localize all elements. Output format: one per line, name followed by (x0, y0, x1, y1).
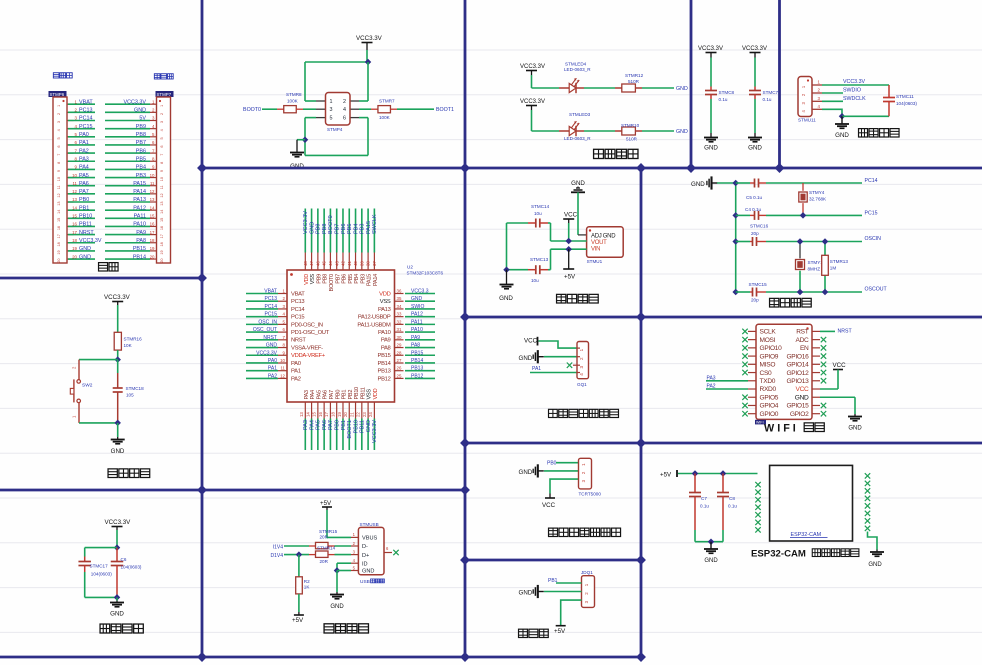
svg-text:2: 2 (343, 99, 346, 105)
svg-text:JDQ1: JDQ1 (581, 570, 593, 575)
svg-text:PB0: PB0 (335, 390, 341, 400)
svg-text:EN: EN (800, 345, 809, 352)
svg-text:VCC: VCC (542, 502, 556, 509)
svg-text:PA15: PA15 (133, 181, 146, 187)
svg-text:GND: GND (411, 296, 423, 302)
svg-text:PB5: PB5 (136, 156, 146, 162)
svg-text:PA13: PA13 (378, 307, 391, 313)
svg-text:20: 20 (57, 259, 61, 263)
svg-text:SW2: SW2 (82, 383, 93, 389)
svg-text:PB10: PB10 (353, 420, 359, 433)
svg-text:PC15: PC15 (79, 124, 93, 130)
svg-text:PB5: PB5 (348, 274, 354, 284)
svg-text:GPIO0: GPIO0 (760, 411, 779, 418)
svg-text:PA3: PA3 (304, 390, 310, 399)
svg-text:C6: C6 (121, 557, 127, 562)
svg-text:15: 15 (312, 412, 317, 417)
svg-text:19: 19 (160, 250, 164, 254)
svg-text:+5V: +5V (292, 617, 304, 624)
svg-text:GND: GND (309, 222, 315, 234)
svg-text:D+: D+ (362, 553, 369, 559)
svg-text:PA1: PA1 (532, 366, 541, 372)
svg-text:GND: GND (676, 86, 688, 92)
svg-text:PA2: PA2 (79, 148, 89, 154)
svg-text:PA0: PA0 (79, 132, 89, 138)
svg-text:4: 4 (343, 107, 346, 113)
svg-text:20: 20 (150, 254, 155, 259)
svg-text:GPIO16: GPIO16 (786, 353, 809, 360)
svg-text:20: 20 (343, 412, 348, 417)
svg-text:17: 17 (57, 234, 61, 238)
svg-text:2: 2 (579, 357, 584, 360)
svg-text:PB2: PB2 (348, 390, 354, 400)
svg-text:36: 36 (397, 289, 402, 294)
svg-text:16: 16 (57, 226, 61, 230)
svg-text:18: 18 (331, 412, 336, 417)
svg-text:RXD0: RXD0 (760, 386, 777, 393)
svg-text:GND: GND (704, 145, 718, 152)
svg-text:PA10: PA10 (378, 330, 391, 336)
svg-text:GND: GND (499, 295, 513, 302)
svg-text:GND: GND (362, 569, 374, 575)
svg-text:PA1: PA1 (79, 140, 89, 146)
svg-text:BOOT0: BOOT0 (243, 107, 261, 113)
svg-text:STMR10: STMR10 (621, 123, 640, 128)
svg-text:PA4: PA4 (310, 390, 316, 399)
svg-text:20p: 20p (751, 298, 759, 303)
svg-text:GQ1: GQ1 (577, 382, 587, 387)
svg-text:510R: 510R (626, 137, 638, 142)
svg-text:PB13: PB13 (411, 366, 423, 372)
svg-text:1: 1 (57, 105, 61, 107)
svg-text:1: 1 (579, 348, 584, 351)
svg-text:OSC_OUT: OSC_OUT (253, 327, 277, 333)
svg-text:18: 18 (57, 242, 61, 246)
svg-text:GPIO14: GPIO14 (786, 362, 809, 369)
svg-text:16: 16 (318, 412, 323, 417)
svg-text:STMU1: STMU1 (587, 259, 603, 264)
svg-text:GPIO15: GPIO15 (786, 403, 809, 410)
svg-text:43: 43 (334, 261, 339, 266)
svg-text:PB12: PB12 (411, 373, 423, 379)
svg-text:4: 4 (579, 373, 584, 376)
svg-text:PA1: PA1 (268, 366, 277, 372)
svg-text:14: 14 (160, 210, 164, 214)
svg-text:NRST: NRST (838, 328, 853, 334)
svg-text:PB9: PB9 (316, 274, 322, 284)
svg-text:2: 2 (57, 113, 61, 115)
svg-text:10: 10 (160, 177, 164, 181)
svg-text:12: 12 (57, 193, 61, 197)
svg-text:16: 16 (150, 222, 155, 227)
svg-text:1: 1 (160, 105, 164, 107)
svg-text:15: 15 (72, 214, 77, 219)
svg-text:D-: D- (362, 544, 368, 550)
svg-text:VCC: VCC (564, 212, 578, 219)
svg-text:42: 42 (341, 261, 346, 266)
svg-text:PC15: PC15 (865, 210, 878, 216)
svg-text:17: 17 (72, 230, 77, 235)
svg-text:STMC14: STMC14 (531, 204, 550, 209)
svg-text:PB0: PB0 (335, 420, 341, 430)
svg-text:13: 13 (299, 412, 304, 417)
svg-text:PD1-OSC_OUT: PD1-OSC_OUT (291, 330, 330, 336)
svg-text:TCRT5000: TCRT5000 (579, 492, 602, 497)
svg-text:PB1: PB1 (341, 420, 347, 430)
svg-text:1: 1 (330, 99, 333, 105)
svg-text:20R: 20R (320, 559, 329, 564)
svg-text:BOOT0: BOOT0 (329, 274, 335, 292)
svg-text:9: 9 (160, 170, 164, 172)
svg-text:BOOT0: BOOT0 (328, 215, 334, 234)
svg-text:PA9: PA9 (381, 338, 391, 344)
svg-text:STM32F103C8T6: STM32F103C8T6 (407, 271, 444, 276)
svg-text:5: 5 (57, 137, 61, 139)
svg-text:PA14: PA14 (133, 189, 146, 195)
svg-text:STMR12: STMR12 (625, 73, 644, 78)
svg-text:3: 3 (330, 107, 333, 113)
svg-text:GND: GND (330, 604, 344, 610)
svg-text:25: 25 (397, 373, 402, 378)
svg-text:45: 45 (322, 261, 327, 266)
svg-text:PB11: PB11 (360, 420, 366, 433)
svg-text:VCC: VCC (833, 362, 847, 369)
svg-text:U2: U2 (407, 265, 413, 270)
svg-text:PA9: PA9 (136, 230, 146, 236)
svg-text:PA2: PA2 (707, 384, 716, 390)
svg-text:C5 0.1u: C5 0.1u (746, 195, 763, 200)
svg-text:STMC7: STMC7 (763, 90, 779, 95)
svg-text:8: 8 (57, 162, 61, 164)
svg-text:19: 19 (150, 246, 155, 251)
svg-text:GPIO4: GPIO4 (760, 403, 779, 410)
svg-text:TXD0: TXD0 (760, 378, 776, 385)
svg-text:PA15: PA15 (366, 221, 372, 234)
svg-text:STMY4: STMY4 (809, 190, 825, 195)
svg-text:32: 32 (397, 319, 402, 324)
svg-text:PB4: PB4 (353, 224, 359, 234)
svg-text:STMY1: STMY1 (808, 260, 824, 265)
svg-text:PA8: PA8 (381, 345, 391, 351)
svg-text:STMC15: STMC15 (749, 282, 768, 287)
svg-text:PA7: PA7 (329, 390, 335, 399)
svg-text:VCC3.3: VCC3.3 (411, 289, 429, 295)
svg-text:18: 18 (72, 238, 77, 243)
svg-text:NRST: NRST (291, 338, 306, 344)
svg-text:VCC3.3V: VCC3.3V (79, 238, 102, 244)
svg-text:SWIO: SWIO (411, 304, 424, 310)
svg-text:PB10: PB10 (79, 214, 92, 220)
svg-text:12: 12 (280, 373, 285, 378)
svg-text:PB13: PB13 (378, 369, 391, 375)
svg-text:14: 14 (57, 210, 61, 214)
svg-text:11: 11 (280, 366, 285, 371)
svg-text:10u: 10u (534, 211, 542, 216)
svg-text:GND: GND (519, 590, 533, 597)
svg-text:VBAT: VBAT (264, 289, 277, 295)
svg-text:+5V: +5V (660, 472, 672, 479)
svg-text:PB1: PB1 (342, 390, 348, 400)
svg-text:PA7: PA7 (328, 420, 334, 430)
svg-text:12: 12 (150, 189, 155, 194)
svg-text:C4 0.1u: C4 0.1u (745, 207, 762, 212)
svg-text:VDD: VDD (379, 291, 390, 297)
svg-text:8MHZ: 8MHZ (808, 267, 821, 272)
svg-text:VSS: VSS (380, 299, 391, 305)
svg-text:4: 4 (160, 129, 164, 131)
svg-text:3: 3 (57, 121, 61, 123)
svg-text:PA11: PA11 (411, 319, 423, 325)
svg-text:GND: GND (835, 132, 849, 139)
svg-text:10: 10 (72, 173, 77, 178)
svg-text:PC13: PC13 (264, 296, 277, 302)
svg-text:100K: 100K (379, 115, 391, 120)
svg-text:13: 13 (72, 197, 77, 202)
svg-text:32.768K: 32.768K (809, 197, 827, 202)
svg-text:PA2: PA2 (291, 376, 301, 382)
svg-text:GND: GND (691, 181, 705, 188)
svg-text:PD0-OSC_IN: PD0-OSC_IN (291, 322, 323, 328)
svg-text:VBAT: VBAT (291, 291, 305, 297)
svg-text:VOUT: VOUT (591, 240, 607, 246)
svg-text:W I F I: W I F I (764, 423, 796, 435)
svg-text:GND: GND (110, 611, 124, 618)
svg-text:D1V4: D1V4 (270, 553, 283, 559)
svg-text:ID: ID (362, 561, 368, 567)
svg-text:21: 21 (349, 412, 354, 417)
svg-text:GND: GND (79, 254, 91, 260)
svg-text:48: 48 (303, 261, 308, 266)
svg-text:ESP32-CAM: ESP32-CAM (751, 549, 806, 560)
svg-text:40: 40 (353, 261, 358, 266)
svg-text:PA0: PA0 (291, 361, 301, 367)
svg-text:10: 10 (150, 173, 155, 178)
svg-text:1M: 1M (830, 266, 837, 271)
svg-text:PA6: PA6 (322, 420, 328, 430)
svg-text:47: 47 (309, 261, 314, 266)
svg-text:GPIO9: GPIO9 (760, 353, 779, 360)
svg-text:10u: 10u (531, 278, 539, 283)
svg-text:38: 38 (366, 261, 371, 266)
svg-text:PC14: PC14 (264, 304, 277, 310)
svg-text:GND: GND (676, 129, 688, 135)
svg-text:1K: 1K (304, 585, 311, 590)
svg-text:22: 22 (356, 412, 361, 417)
svg-text:3: 3 (579, 365, 584, 368)
svg-text:6: 6 (57, 145, 61, 147)
svg-text:RST: RST (796, 329, 809, 336)
svg-text:PA12-USBDP: PA12-USBDP (358, 315, 391, 321)
svg-text:VDD: VDD (304, 274, 310, 285)
svg-text:STMU11: STMU11 (798, 118, 816, 123)
svg-text:VCC3.3V: VCC3.3V (372, 420, 378, 443)
svg-text:104(0603): 104(0603) (91, 572, 112, 577)
svg-text:GND: GND (748, 145, 762, 152)
svg-text:PA14: PA14 (373, 274, 379, 286)
svg-text:I1V4: I1V4 (273, 544, 284, 550)
svg-text:VCC3.3V: VCC3.3V (105, 519, 132, 526)
svg-text:PB10: PB10 (354, 387, 360, 400)
svg-text:STMR16: STMR16 (124, 337, 143, 342)
svg-text:5V: 5V (139, 116, 146, 122)
svg-text:15: 15 (57, 218, 61, 222)
svg-text:PA12: PA12 (133, 205, 146, 211)
svg-text:13: 13 (150, 197, 155, 202)
svg-text:CS0: CS0 (760, 370, 773, 377)
svg-text:PB8: PB8 (136, 132, 146, 138)
svg-text:0.1u: 0.1u (728, 504, 737, 509)
svg-text:12: 12 (72, 189, 77, 194)
svg-text:VCC3.3V: VCC3.3V (520, 64, 545, 70)
svg-text:PA15: PA15 (367, 274, 373, 286)
svg-text:ADC: ADC (795, 337, 809, 344)
svg-text:SWDIO: SWDIO (843, 88, 861, 94)
svg-text:PA3: PA3 (79, 156, 89, 162)
svg-text:17: 17 (324, 412, 329, 417)
svg-text:MISO: MISO (760, 362, 776, 369)
svg-text:PB6: PB6 (342, 274, 348, 284)
svg-text:GND: GND (134, 108, 146, 114)
svg-text:PA9: PA9 (411, 335, 420, 341)
svg-text:PB5: PB5 (347, 224, 353, 234)
svg-text:PA13: PA13 (133, 197, 146, 203)
svg-text:PB15: PB15 (133, 246, 146, 252)
svg-text:PB8: PB8 (322, 224, 328, 234)
svg-text:PA11: PA11 (134, 214, 146, 220)
svg-text:11: 11 (150, 181, 155, 186)
svg-text:STMR13: STMR13 (830, 259, 849, 264)
svg-text:5: 5 (160, 137, 164, 139)
svg-text:19: 19 (57, 250, 61, 254)
svg-text:GND: GND (704, 558, 718, 564)
svg-text:NRST: NRST (79, 230, 94, 236)
svg-text:STMUSB: STMUSB (360, 522, 379, 527)
svg-text:STMC11: STMC11 (896, 94, 914, 99)
svg-text:WIFI: WIFI (756, 421, 764, 425)
svg-text:GND: GND (111, 448, 125, 455)
svg-text:PB11: PB11 (360, 387, 366, 399)
svg-text:STMC8: STMC8 (719, 90, 735, 95)
svg-text:PB3: PB3 (136, 173, 146, 179)
svg-text:20R: 20R (320, 535, 329, 540)
svg-text:11: 11 (160, 185, 164, 189)
svg-text:13: 13 (160, 201, 164, 205)
svg-text:PA1: PA1 (291, 369, 301, 375)
svg-text:STMP6: STMP6 (50, 92, 65, 97)
svg-text:PA3: PA3 (707, 375, 716, 381)
svg-text:STMR15: STMR15 (319, 529, 338, 534)
svg-text:4: 4 (57, 129, 61, 131)
svg-text:+5V: +5V (554, 628, 566, 635)
svg-text:14: 14 (305, 412, 310, 417)
svg-text:VSSA-VREF-: VSSA-VREF- (291, 345, 323, 351)
svg-text:GND: GND (266, 343, 278, 349)
svg-text:0.1u: 0.1u (700, 504, 709, 509)
svg-text:2: 2 (160, 113, 164, 115)
svg-text:23: 23 (362, 412, 367, 417)
svg-text:PB11: PB11 (79, 222, 92, 228)
svg-text:STMP7: STMP7 (157, 92, 172, 97)
svg-text:PB0: PB0 (547, 460, 557, 466)
svg-text:OSCIN: OSCIN (865, 236, 882, 242)
svg-text:PC14: PC14 (79, 116, 93, 122)
svg-text:+5V: +5V (320, 500, 332, 507)
svg-text:PB3: PB3 (360, 274, 366, 284)
svg-text:16: 16 (72, 222, 77, 227)
svg-text:PB15: PB15 (378, 353, 391, 359)
svg-text:PB8: PB8 (323, 274, 329, 284)
svg-text:VSS: VSS (367, 389, 373, 400)
svg-text:VBUS: VBUS (362, 536, 378, 542)
svg-text:GND: GND (868, 562, 882, 568)
svg-text:PC15: PC15 (291, 315, 304, 321)
svg-text:VIN: VIN (591, 246, 600, 252)
svg-text:27: 27 (397, 358, 402, 363)
svg-text:PB9: PB9 (136, 124, 146, 130)
svg-text:3: 3 (160, 121, 164, 123)
svg-text:+5V: +5V (564, 274, 576, 281)
svg-text:PC13: PC13 (79, 108, 93, 114)
svg-text:16: 16 (160, 226, 164, 230)
svg-text:11: 11 (57, 185, 61, 189)
svg-text:VBAT: VBAT (79, 99, 93, 105)
svg-text:105: 105 (126, 392, 134, 397)
svg-text:34: 34 (397, 304, 402, 309)
svg-text:VCC3.3V: VCC3.3V (742, 46, 767, 52)
svg-text:33: 33 (397, 312, 402, 317)
svg-text:19: 19 (72, 246, 77, 251)
svg-text:13: 13 (57, 201, 61, 205)
svg-text:24: 24 (368, 412, 373, 417)
svg-text:18: 18 (160, 242, 164, 246)
svg-text:PA6: PA6 (79, 181, 89, 187)
svg-text:6: 6 (160, 145, 164, 147)
svg-text:PA8: PA8 (136, 238, 146, 244)
svg-text:STMC16: STMC16 (750, 224, 769, 229)
svg-text:VCC3.3V: VCC3.3V (124, 99, 147, 105)
svg-text:9: 9 (57, 170, 61, 172)
svg-text:STMLED3: STMLED3 (569, 112, 591, 117)
svg-text:VCC3.3V: VCC3.3V (303, 211, 309, 234)
svg-text:15: 15 (150, 214, 155, 219)
svg-text:STMC18: STMC18 (126, 386, 145, 391)
svg-text:PB4: PB4 (354, 274, 360, 284)
svg-text:VCC3.3V: VCC3.3V (356, 35, 383, 42)
svg-text:PA10: PA10 (133, 222, 146, 228)
svg-text:15: 15 (160, 218, 164, 222)
svg-text:STMC17: STMC17 (90, 564, 109, 569)
svg-text:PA0: PA0 (268, 358, 277, 364)
svg-text:PA12: PA12 (411, 312, 423, 318)
svg-text:NRST: NRST (263, 335, 277, 341)
svg-text:PB6: PB6 (136, 148, 146, 154)
svg-text:31: 31 (397, 327, 402, 332)
svg-text:20: 20 (72, 254, 77, 259)
svg-text:PB3: PB3 (360, 224, 366, 234)
svg-text:PB7: PB7 (136, 140, 146, 146)
svg-text:0.1u: 0.1u (719, 97, 728, 102)
svg-text:GND: GND (366, 420, 372, 432)
svg-text:PC14: PC14 (291, 307, 305, 313)
svg-text:VCC: VCC (524, 338, 538, 345)
svg-text:SWCLK: SWCLK (372, 214, 378, 234)
svg-text:VSS: VSS (310, 273, 316, 284)
svg-text:PB14: PB14 (133, 254, 146, 260)
svg-text:PA5: PA5 (79, 173, 89, 179)
svg-text:39: 39 (359, 261, 364, 266)
svg-text:PC13: PC13 (291, 299, 304, 305)
svg-text:PA11-USBDM: PA11-USBDM (357, 322, 391, 328)
